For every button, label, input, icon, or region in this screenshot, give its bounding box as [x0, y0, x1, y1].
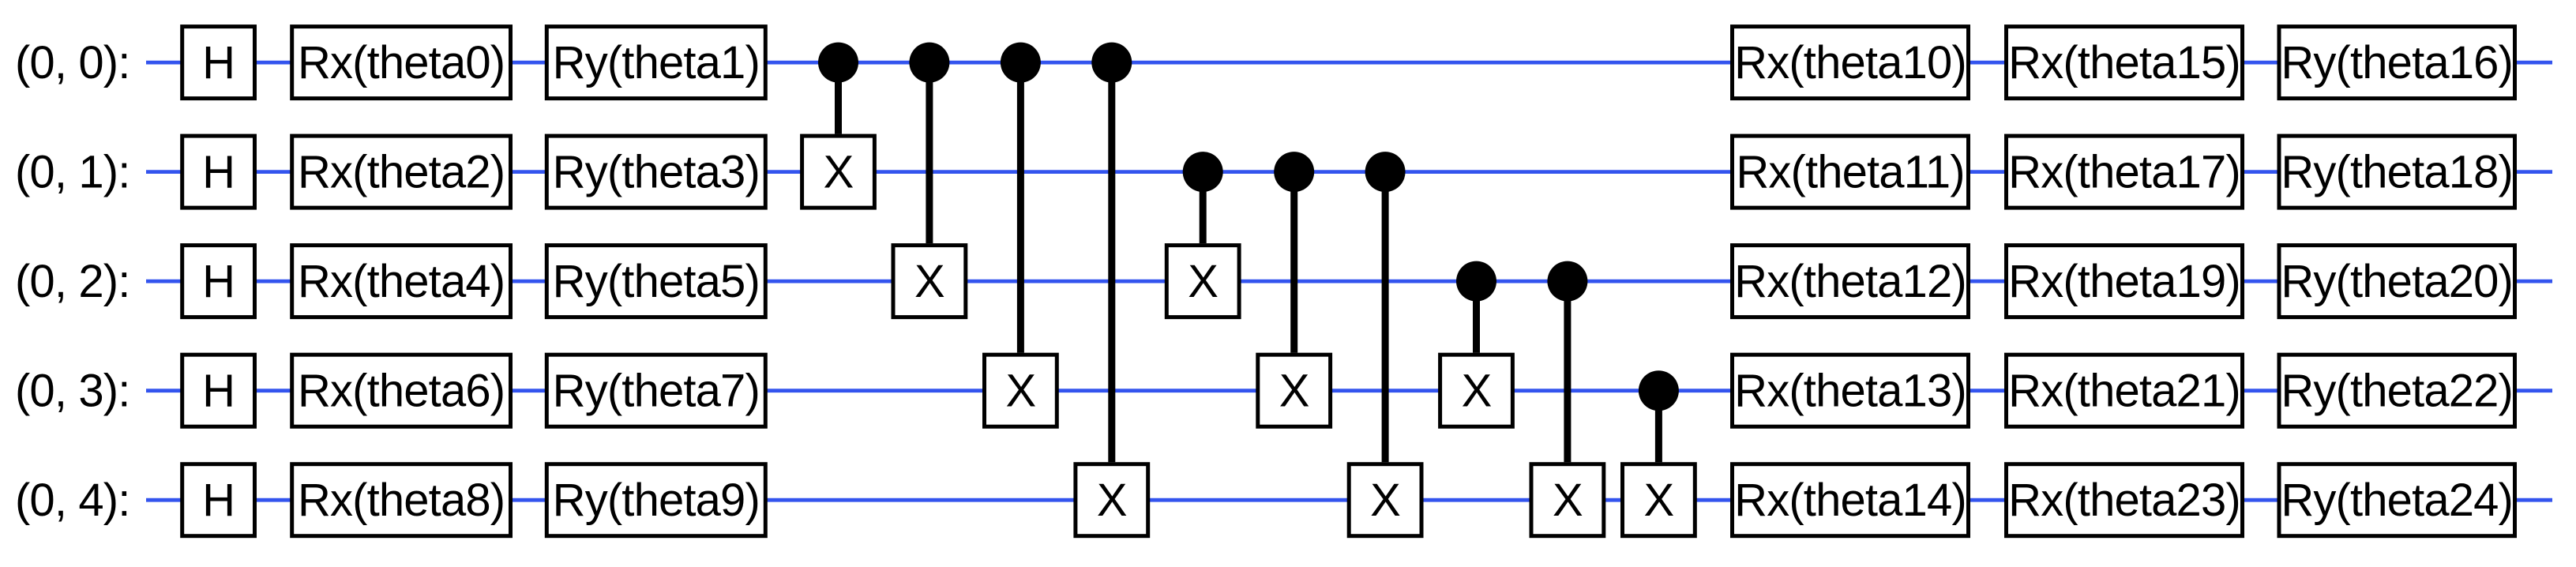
CNOT 5 control dot qubit 1 [1183, 152, 1223, 192]
gate Rx(theta0) [292, 27, 511, 99]
svg-text:H: H [202, 37, 235, 88]
svg-text:Rx(theta10): Rx(theta10) [1734, 37, 1966, 88]
CNOT 9 control dot qubit 2 [1547, 261, 1587, 302]
gate Rx(theta23) [2007, 464, 2243, 536]
svg-text:Ry(theta7): Ry(theta7) [553, 366, 760, 417]
gate Ry(theta24) [2279, 464, 2515, 536]
svg-text:Ry(theta9): Ry(theta9) [553, 475, 760, 526]
gate Rx(theta10) [1733, 27, 1969, 99]
gate Ry(theta16) [2279, 27, 2515, 99]
CNOT 5 connector q1->q2 [1200, 172, 1207, 244]
svg-text:X: X [1005, 366, 1035, 417]
CNOT 10 control dot qubit 3 [1639, 370, 1679, 411]
svg-text:Rx(theta21): Rx(theta21) [2008, 366, 2240, 417]
CNOT 3 control dot qubit 0 [1001, 43, 1041, 83]
svg-text:Rx(theta8): Rx(theta8) [298, 475, 505, 526]
gate Ry(theta7) [546, 355, 765, 426]
svg-text:Rx(theta15): Rx(theta15) [2008, 37, 2240, 88]
svg-text:X: X [1370, 475, 1400, 526]
gate Ry(theta18) [2279, 136, 2515, 208]
svg-text:Ry(theta18): Ry(theta18) [2281, 147, 2513, 198]
svg-text:(0, 4):: (0, 4): [15, 475, 130, 526]
wire qubit 3 [146, 389, 2552, 392]
gate Rx(theta13) [1733, 355, 1969, 426]
CNOT 6 connector q1->q3 [1290, 172, 1297, 353]
svg-text:H: H [202, 475, 235, 526]
svg-text:Ry(theta20): Ry(theta20) [2281, 256, 2513, 307]
CNOT 4 control dot qubit 0 [1091, 43, 1132, 83]
svg-text:Rx(theta19): Rx(theta19) [2008, 256, 2240, 307]
CNOT 9 connector q2->q4 [1564, 281, 1571, 462]
svg-text:(0, 3):: (0, 3): [15, 366, 130, 417]
gate Rx(theta4) [292, 246, 511, 317]
CNOT 3 target X qubit 3 [985, 355, 1057, 426]
svg-text:H: H [202, 147, 235, 198]
CNOT 3 connector q0->q3 [1017, 62, 1024, 353]
CNOT 9 target X qubit 4 [1531, 464, 1604, 536]
CNOT 8 connector q2->q3 [1473, 281, 1480, 353]
gate Rx(theta15) [2007, 27, 2243, 99]
svg-text:(0, 0):: (0, 0): [15, 37, 130, 88]
CNOT 2 control dot qubit 0 [909, 43, 949, 83]
svg-text:Rx(theta14): Rx(theta14) [1734, 475, 1966, 526]
svg-text:X: X [1097, 475, 1127, 526]
CNOT 10 connector q3->q4 [1655, 391, 1662, 463]
svg-text:H: H [202, 256, 235, 307]
svg-text:Rx(theta4): Rx(theta4) [298, 256, 505, 307]
CNOT 2 connector q0->q2 [926, 62, 933, 243]
CNOT 7 target X qubit 4 [1349, 464, 1421, 536]
gate H qubit 0 [182, 27, 255, 99]
CNOT 1 target X qubit 1 [802, 136, 875, 208]
gate Rx(theta19) [2007, 246, 2243, 317]
gate Ry(theta9) [546, 464, 765, 536]
gate Ry(theta20) [2279, 246, 2515, 317]
CNOT 10 target X qubit 4 [1623, 464, 1695, 536]
svg-text:X: X [1643, 475, 1673, 526]
CNOT 6 control dot qubit 1 [1274, 152, 1314, 192]
gate Rx(theta14) [1733, 464, 1969, 536]
svg-text:X: X [1279, 366, 1309, 417]
gate Ry(theta1) [546, 27, 765, 99]
svg-text:X: X [824, 147, 854, 198]
gate H qubit 4 [182, 464, 255, 536]
gate Rx(theta8) [292, 464, 511, 536]
svg-text:Rx(theta17): Rx(theta17) [2008, 147, 2240, 198]
CNOT 6 target X qubit 3 [1258, 355, 1331, 426]
wire qubit 4 [146, 498, 2552, 502]
svg-text:Rx(theta0): Rx(theta0) [298, 37, 505, 88]
wire qubit 2 [146, 280, 2552, 283]
svg-text:Rx(theta11): Rx(theta11) [1736, 147, 1964, 198]
svg-text:Ry(theta5): Ry(theta5) [553, 256, 760, 307]
gate H qubit 3 [182, 355, 255, 426]
gate Rx(theta6) [292, 355, 511, 426]
svg-text:X: X [914, 256, 944, 307]
gate Ry(theta5) [546, 246, 765, 317]
svg-text:(0, 2):: (0, 2): [15, 256, 130, 307]
CNOT 4 target X qubit 4 [1076, 464, 1148, 536]
CNOT 7 control dot qubit 1 [1365, 152, 1406, 192]
gate Rx(theta21) [2007, 355, 2243, 426]
CNOT 8 target X qubit 3 [1440, 355, 1513, 426]
CNOT 5 target X qubit 2 [1166, 246, 1239, 317]
svg-text:Ry(theta3): Ry(theta3) [553, 147, 760, 198]
svg-text:Rx(theta23): Rx(theta23) [2008, 475, 2240, 526]
gate Rx(theta17) [2007, 136, 2243, 208]
CNOT 1 control dot qubit 0 [818, 43, 858, 83]
CNOT 8 control dot qubit 2 [1456, 261, 1496, 302]
svg-text:Ry(theta16): Ry(theta16) [2281, 37, 2513, 88]
CNOT 7 connector q1->q4 [1382, 172, 1389, 463]
CNOT 2 target X qubit 2 [893, 246, 966, 317]
svg-text:Ry(theta1): Ry(theta1) [553, 37, 760, 88]
svg-text:Rx(theta6): Rx(theta6) [298, 366, 505, 417]
gate H qubit 2 [182, 246, 255, 317]
wire qubit 0 [146, 61, 2552, 65]
CNOT 4 connector q0->q4 [1108, 62, 1115, 462]
svg-text:X: X [1553, 475, 1583, 526]
CNOT 1 connector q0->q1 [835, 62, 842, 134]
svg-text:Rx(theta2): Rx(theta2) [298, 147, 505, 198]
svg-text:X: X [1188, 256, 1218, 307]
svg-text:H: H [202, 366, 235, 417]
svg-text:X: X [1462, 366, 1492, 417]
gate H qubit 1 [182, 136, 255, 208]
gate Ry(theta3) [546, 136, 765, 208]
wire qubit 1 [146, 170, 2552, 174]
svg-text:Rx(theta12): Rx(theta12) [1734, 256, 1966, 307]
gate Rx(theta11) [1733, 136, 1969, 208]
svg-text:Ry(theta22): Ry(theta22) [2281, 366, 2513, 417]
gate Rx(theta12) [1733, 246, 1969, 317]
gate Ry(theta22) [2279, 355, 2515, 426]
svg-text:Rx(theta13): Rx(theta13) [1734, 366, 1966, 417]
gate Rx(theta2) [292, 136, 511, 208]
svg-text:Ry(theta24): Ry(theta24) [2281, 475, 2513, 526]
svg-text:(0, 1):: (0, 1): [15, 147, 130, 198]
